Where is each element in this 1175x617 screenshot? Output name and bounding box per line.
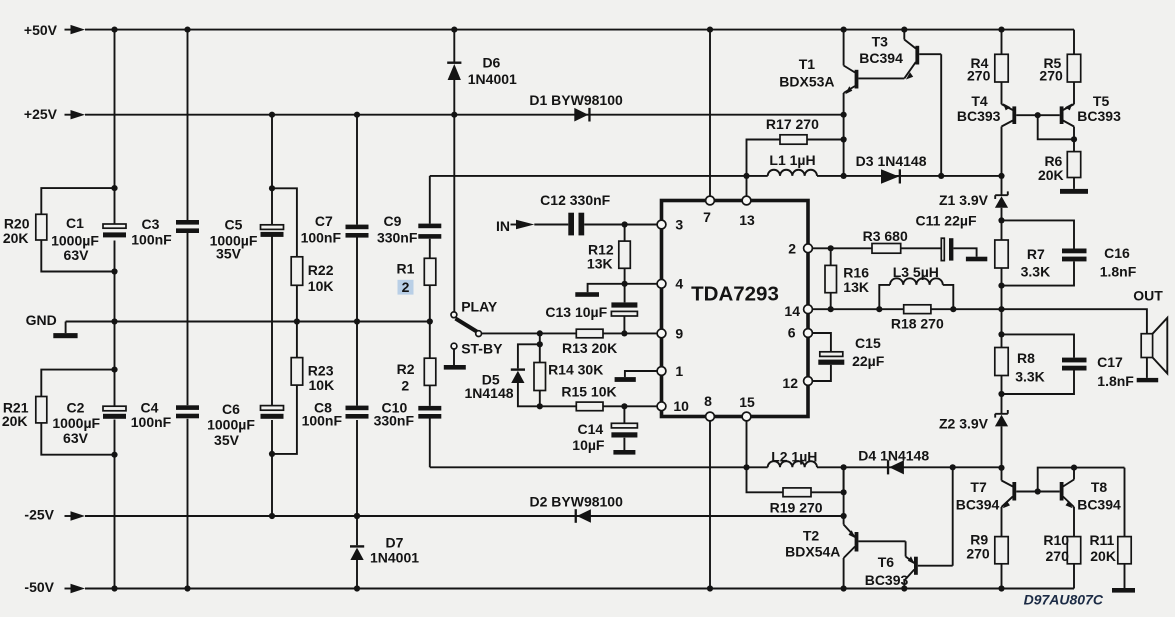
svg-text:D2 BYW98100: D2 BYW98100	[530, 494, 624, 510]
svg-text:2: 2	[401, 377, 409, 393]
svg-text:C13 10µF: C13 10µF	[545, 304, 607, 320]
svg-text:7: 7	[703, 209, 711, 225]
resistor R7	[995, 220, 1050, 285]
svg-text:R7: R7	[1027, 246, 1045, 262]
wire switch line y=333.4	[482, 332, 540, 334]
svg-text:T3: T3	[872, 34, 889, 50]
wire column C9/R1/R2/C10 x=429.8	[429, 176, 431, 467]
node -25V/col3	[269, 513, 275, 519]
resistor R12	[587, 225, 630, 284]
svg-text:13: 13	[739, 212, 755, 228]
node C14 top	[621, 403, 627, 409]
svg-text:IN: IN	[496, 218, 510, 234]
svg-text:22µF: 22µF	[852, 353, 885, 369]
GND rail	[26, 312, 430, 338]
resistor R11	[1089, 468, 1135, 593]
svg-text:BDX53A: BDX53A	[779, 74, 834, 90]
svg-text:R11: R11	[1089, 532, 1114, 548]
svg-text:T8: T8	[1091, 479, 1108, 495]
-50V rail	[24, 579, 1074, 595]
node C12/R12 pin3 line	[622, 221, 628, 227]
svg-text:14: 14	[784, 303, 800, 319]
svg-text:C6: C6	[222, 401, 240, 417]
resistor R10	[1043, 507, 1080, 589]
IN input arrow	[496, 218, 534, 234]
svg-text:BC394: BC394	[1077, 497, 1121, 513]
node switch/R14	[537, 330, 543, 336]
wire D3 line y=175.9	[844, 175, 1002, 177]
wire T6 collector down	[903, 581, 905, 589]
capacitor C10	[374, 400, 442, 429]
svg-text:63V: 63V	[64, 247, 90, 263]
diode D3	[856, 153, 927, 184]
node D3/T3 base	[938, 173, 944, 179]
transistor T6 BC393	[865, 541, 953, 588]
svg-text:C7: C7	[315, 213, 333, 229]
node R19 right	[841, 489, 847, 495]
node +25V/col5	[354, 112, 360, 118]
+50V rail	[24, 22, 1074, 38]
pin 7	[703, 196, 714, 225]
pin 8	[704, 393, 714, 421]
wire pin8 to -50V	[709, 419, 711, 589]
node +25V/col3	[269, 112, 275, 118]
svg-text:+50V: +50V	[24, 22, 58, 38]
svg-text:T7: T7	[970, 479, 987, 495]
svg-text:270: 270	[966, 546, 990, 562]
wire T3 collector column x=904.3	[903, 30, 905, 40]
svg-text:Z1 3.9V: Z1 3.9V	[939, 192, 989, 208]
zener Z2	[939, 394, 1008, 468]
svg-text:1000µF: 1000µF	[52, 415, 100, 431]
inductor L3 with bracket	[879, 264, 953, 309]
svg-text:R10: R10	[1043, 532, 1069, 548]
node +25V end/T1 emitter	[841, 112, 847, 118]
node +50V/T1	[841, 27, 847, 33]
svg-text:R22: R22	[308, 262, 334, 278]
node -50V/col2	[184, 585, 190, 591]
svg-text:9: 9	[675, 326, 683, 342]
svg-text:1N4001: 1N4001	[370, 550, 419, 566]
wire T5 collector down	[1073, 127, 1075, 152]
capacitor C15	[813, 333, 885, 381]
wire pin2 line	[813, 247, 831, 249]
svg-text:C14: C14	[577, 421, 603, 437]
wire column D6/PLAY x=454.3	[453, 30, 455, 312]
svg-text:270: 270	[1046, 548, 1070, 564]
node T8 collector	[1071, 465, 1077, 471]
-25V rail	[24, 506, 843, 522]
switch ST-BY contact	[444, 341, 503, 370]
svg-text:C3: C3	[142, 216, 160, 232]
svg-text:R13 20K: R13 20K	[562, 340, 617, 356]
node R21 top	[111, 367, 117, 373]
transistor T5 BC393	[1060, 93, 1121, 126]
node -25V/col5	[354, 513, 360, 519]
switch PLAY contact	[451, 299, 498, 318]
svg-text:BC394: BC394	[956, 497, 1000, 513]
wire column C1/C2 x=114.5	[114, 30, 116, 589]
node L3 left	[876, 306, 882, 312]
node pin13/L1/R17	[743, 173, 749, 179]
svg-text:330nF: 330nF	[374, 413, 415, 429]
pin 12	[782, 375, 812, 391]
resistor R9	[966, 507, 1008, 589]
diode D1	[529, 92, 623, 121]
pin 3	[657, 217, 683, 233]
capacitor C2	[52, 400, 126, 446]
pin 15	[739, 394, 755, 421]
capacitor C17	[1002, 334, 1135, 394]
node -50V/pin8	[707, 585, 713, 591]
node R12/C13/pin4	[622, 281, 628, 287]
resistor R15	[540, 384, 662, 411]
diode D2	[530, 494, 624, 523]
node pin2/R16	[828, 245, 834, 251]
capacitor C4	[131, 400, 199, 430]
capacitor C5	[210, 217, 284, 262]
svg-text:R14 30K: R14 30K	[548, 362, 603, 378]
svg-text:BC394: BC394	[859, 50, 903, 66]
wire column C3/C4 x=187.5	[187, 30, 189, 589]
transistor T7 BC394	[956, 468, 1060, 513]
pin 9	[657, 326, 683, 342]
svg-text:10µF: 10µF	[572, 437, 605, 453]
svg-text:3.3K: 3.3K	[1021, 264, 1051, 280]
svg-text:1000µF: 1000µF	[51, 233, 99, 249]
svg-text:ST-BY: ST-BY	[461, 341, 503, 357]
svg-text:12: 12	[782, 375, 798, 391]
node base tie	[1035, 112, 1041, 118]
node R17 right	[841, 136, 847, 142]
svg-text:2: 2	[788, 240, 796, 256]
svg-text:10: 10	[673, 398, 689, 414]
pin 2	[788, 240, 812, 256]
svg-text:13K: 13K	[843, 279, 869, 295]
+25V rail	[24, 106, 844, 122]
capacitor C6	[207, 401, 283, 448]
svg-text:BC393: BC393	[865, 572, 909, 588]
svg-text:R18 270: R18 270	[891, 316, 944, 332]
resistor R4	[967, 30, 1008, 105]
node +25V/D6/PLAY column	[451, 112, 457, 118]
svg-text:R8: R8	[1017, 350, 1035, 366]
switch arm	[456, 319, 478, 333]
wire pin15 down	[746, 419, 748, 467]
inductor L1	[747, 152, 844, 176]
wire D4 line y=467.3	[844, 466, 1002, 468]
resistor R6	[1038, 152, 1088, 194]
pin 4	[657, 276, 683, 292]
node +50V/col1	[111, 27, 117, 33]
node OUT column/pin14 line	[998, 306, 1004, 312]
ground stub pin4	[575, 284, 661, 297]
svg-text:35V: 35V	[214, 432, 240, 448]
label D97AU807C	[1024, 592, 1104, 608]
resistor R19 with bracket	[747, 467, 844, 515]
node -50V/col1	[111, 585, 117, 591]
node +50V/col2	[184, 27, 190, 33]
svg-text:R23: R23	[308, 362, 334, 378]
speaker LS	[1137, 318, 1168, 383]
node +50V/T3	[901, 27, 907, 33]
node -25V end/T2 emitter	[841, 513, 847, 519]
node GND end / R1-R2	[427, 318, 433, 324]
node L2/R19/D4/T2	[841, 464, 847, 470]
capacitor C16	[1002, 220, 1137, 285]
wire T8 collector	[1073, 468, 1075, 480]
node R23 bottom	[269, 451, 275, 457]
resistor R17 with bracket	[747, 116, 844, 176]
svg-text:PLAY: PLAY	[461, 299, 498, 315]
capacitor C3	[131, 216, 199, 248]
ground stub pin1	[615, 371, 657, 382]
node D4 line/T6 base	[950, 464, 956, 470]
svg-text:1: 1	[675, 363, 683, 379]
capacitor C14	[572, 406, 637, 454]
node -50V/D7	[354, 585, 360, 591]
svg-text:10K: 10K	[308, 278, 334, 294]
svg-text:C12 330nF: C12 330nF	[540, 192, 610, 208]
node R20 top	[111, 185, 117, 191]
svg-text:D6: D6	[482, 55, 500, 71]
svg-text:1.8nF: 1.8nF	[1097, 373, 1134, 389]
diode D4	[858, 447, 929, 474]
resistor R3	[831, 228, 942, 253]
svg-text:1000µF: 1000µF	[207, 416, 255, 432]
transistor T8 BC394	[1060, 479, 1121, 513]
resistor R22	[272, 188, 334, 321]
svg-text:3.3K: 3.3K	[1015, 369, 1045, 385]
svg-text:4: 4	[675, 276, 683, 292]
node D3 line/T4 collector	[998, 173, 1004, 179]
node -50V/R9	[998, 585, 1004, 591]
svg-text:C9: C9	[384, 213, 402, 229]
svg-text:T1: T1	[799, 56, 816, 72]
node Z1/C16 top line	[998, 217, 1004, 223]
wire top link y=175.9 to pin13 node	[430, 175, 747, 177]
capacitor C9	[377, 213, 441, 245]
capacitor C11	[916, 213, 988, 262]
svg-text:270: 270	[967, 67, 991, 83]
svg-text:R19 270: R19 270	[770, 500, 823, 516]
pin 10	[657, 398, 689, 414]
resistor R14	[534, 362, 603, 391]
svg-text:20K: 20K	[1038, 167, 1064, 183]
diode D7	[350, 516, 419, 589]
wire pin7 to +50V	[709, 30, 711, 198]
svg-text:R2: R2	[397, 361, 415, 377]
svg-text:-50V: -50V	[24, 579, 54, 595]
node -25V/D7	[354, 513, 360, 519]
wire T3 base down x=941.2	[940, 54, 942, 176]
svg-text:L1 1µH: L1 1µH	[769, 152, 815, 168]
wire R7-R8 column	[1001, 286, 1003, 348]
svg-text:T6: T6	[878, 554, 895, 570]
svg-text:100nF: 100nF	[131, 232, 172, 248]
capacitor C7	[301, 213, 369, 245]
svg-text:L3 5µH: L3 5µH	[893, 264, 939, 280]
svg-text:C17: C17	[1097, 354, 1123, 370]
node R20 bottom	[111, 268, 117, 274]
svg-text:T5: T5	[1093, 93, 1110, 109]
svg-text:D3 1N4148: D3 1N4148	[856, 153, 927, 169]
svg-text:R17 270: R17 270	[766, 116, 819, 132]
wire T1 column x=843.6	[843, 30, 845, 176]
resistor R20	[3, 188, 115, 271]
switch pole contact	[476, 331, 482, 337]
resistor R23	[272, 322, 334, 454]
svg-text:20K: 20K	[1090, 548, 1116, 564]
svg-text:D97AU807C: D97AU807C	[1024, 592, 1104, 608]
node C13 bottom / pin9 line	[621, 330, 627, 336]
svg-text:1N4148: 1N4148	[464, 385, 513, 401]
svg-text:L2 1µH: L2 1µH	[771, 449, 817, 465]
pin 1	[657, 363, 683, 379]
svg-text:D4 1N4148: D4 1N4148	[858, 447, 929, 463]
diode D5	[464, 344, 539, 406]
node -50V/T2 collector	[841, 585, 847, 591]
wire T4/T5 base tie	[1038, 115, 1074, 139]
resistor R18	[891, 305, 944, 332]
svg-text:63V: 63V	[63, 430, 89, 446]
transistor T2 BDX54A	[785, 525, 905, 560]
svg-text:100nF: 100nF	[302, 413, 343, 429]
svg-text:BC393: BC393	[957, 108, 1001, 124]
resistor R21	[2, 370, 115, 455]
svg-text:8: 8	[704, 393, 712, 409]
transistor T4 BC393	[957, 93, 1060, 126]
resistor R16	[825, 248, 869, 309]
svg-text:C16: C16	[1104, 245, 1130, 261]
svg-text:13K: 13K	[587, 255, 613, 271]
svg-text:D1 BYW98100: D1 BYW98100	[529, 92, 623, 108]
diode D6	[447, 55, 517, 87]
node R22 top	[269, 185, 275, 191]
resistor R8	[995, 348, 1045, 395]
capacitor C1	[51, 215, 126, 263]
svg-text:100nF: 100nF	[131, 414, 172, 430]
wire pin14 line y=309.2	[813, 309, 1147, 334]
svg-text:+25V: +25V	[24, 106, 58, 122]
wire bottom link y=467.3 to pin15 node	[430, 466, 747, 468]
capacitor C8	[302, 400, 369, 429]
wire T4 collector down	[1001, 127, 1003, 176]
svg-text:35V: 35V	[216, 246, 242, 262]
wire T6 base up x=952.7	[952, 467, 954, 565]
svg-text:C11 22µF: C11 22µF	[916, 213, 977, 229]
svg-text:15: 15	[739, 394, 755, 410]
svg-text:T4: T4	[971, 93, 988, 109]
resistor R5	[1039, 30, 1080, 105]
resistor R2	[397, 358, 436, 393]
svg-text:C2: C2	[67, 400, 85, 416]
node R22 bottom GND	[294, 318, 300, 324]
svg-text:330nF: 330nF	[377, 229, 418, 245]
capacitor C13	[545, 284, 637, 334]
pin 14	[784, 303, 812, 319]
node T7/T8 base	[1035, 488, 1041, 494]
svg-text:BC393: BC393	[1077, 108, 1121, 124]
svg-text:R1: R1	[397, 260, 415, 276]
node +50V/pin7	[707, 27, 713, 33]
node -50V/T6	[901, 585, 907, 591]
capacitor C12	[534, 192, 661, 236]
wire column C5/C6 x=272	[271, 115, 273, 516]
transistor T3 BC394	[859, 34, 941, 80]
svg-text:20K: 20K	[2, 413, 28, 429]
svg-text:1N4001: 1N4001	[468, 71, 517, 87]
svg-text:-25V: -25V	[24, 506, 54, 522]
svg-text:2: 2	[402, 279, 410, 295]
svg-text:OUT: OUT	[1133, 288, 1163, 304]
node L1/D3 junction	[841, 173, 847, 179]
wire R14 column	[539, 333, 541, 406]
svg-text:D7: D7	[386, 534, 404, 550]
svg-text:R3 680: R3 680	[863, 228, 908, 244]
node +50V/D6	[451, 27, 457, 33]
svg-text:270: 270	[1039, 67, 1063, 83]
node D5 branch	[537, 341, 543, 347]
svg-text:3: 3	[675, 217, 683, 233]
OUT label	[1133, 288, 1163, 304]
node R16 bottom	[828, 306, 834, 312]
resistor R13	[540, 329, 662, 356]
svg-text:100nF: 100nF	[301, 229, 342, 245]
svg-text:C5: C5	[225, 217, 243, 233]
svg-text:BDX54A: BDX54A	[785, 544, 840, 560]
pin 13	[739, 196, 755, 228]
svg-text:1.8nF: 1.8nF	[1100, 264, 1137, 280]
node T5 collector/R6	[1071, 136, 1077, 142]
node R21 bottom	[111, 452, 117, 458]
svg-text:10K: 10K	[309, 377, 335, 393]
wire pin13 up	[746, 176, 748, 198]
inductor L2	[747, 449, 844, 468]
transistor T1 BDX53A	[779, 56, 904, 94]
svg-text:C1: C1	[66, 215, 84, 231]
svg-text:C15: C15	[855, 335, 881, 351]
node GND/col5	[354, 318, 360, 324]
node L3 right	[950, 306, 956, 312]
op-amp IC U1 TDA7293 body	[662, 201, 809, 417]
pin 6	[788, 324, 813, 340]
node +50V/R4	[998, 27, 1004, 33]
node pin15/L2/R19	[743, 464, 749, 470]
node R8 bottom/Z2	[998, 391, 1004, 397]
node R7 bottom/OUT line	[998, 283, 1004, 289]
wire T2 column x=843.6	[843, 467, 845, 588]
svg-text:Z2 3.9V: Z2 3.9V	[939, 415, 989, 431]
svg-text:GND: GND	[26, 312, 57, 328]
wire column C7/C8 x=357	[356, 115, 358, 516]
svg-text:R15 10K: R15 10K	[561, 384, 616, 400]
svg-text:20K: 20K	[3, 230, 29, 246]
wire T7/T8 base tie up	[1038, 468, 1125, 492]
node GND/col1	[111, 318, 117, 324]
resistor R1	[397, 258, 436, 295]
svg-text:T2: T2	[803, 528, 820, 544]
svg-text:TDA7293: TDA7293	[691, 283, 779, 306]
svg-text:6: 6	[788, 324, 796, 340]
node R15/R14/D5	[537, 403, 543, 409]
node R8 top/C17 line	[998, 331, 1004, 337]
node D4 line/Z2/T7	[998, 465, 1004, 471]
zener Z1	[939, 176, 1008, 221]
